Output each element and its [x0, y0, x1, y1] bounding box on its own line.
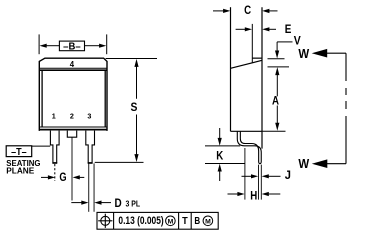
dimension H left extension line: [244, 148, 246, 200]
dimension D arrow right: [94, 201, 111, 205]
datum W upper arrow: [312, 49, 346, 58]
svg-text:K: K: [216, 151, 224, 163]
dimension D left extension line: [88, 163, 90, 211]
svg-text:S: S: [130, 102, 137, 114]
datum W lower arrow: [312, 159, 346, 168]
svg-text:W: W: [298, 47, 309, 61]
front view package body outline: [39, 58, 107, 131]
svg-text:2: 2: [70, 112, 74, 121]
side view body top sloped edge: [231, 60, 263, 68]
side view body bottom edge: [231, 130, 263, 132]
dimension S bottom reference line: [95, 161, 144, 163]
svg-text:0.13 (0.005): 0.13 (0.005): [118, 215, 164, 227]
svg-text:3: 3: [87, 112, 91, 121]
svg-text:–B–: –B–: [63, 41, 81, 52]
dimension S top extension line: [106, 57, 157, 59]
svg-text:J: J: [285, 170, 291, 182]
dimension C arrow right: [262, 9, 277, 13]
svg-text:T: T: [182, 216, 188, 227]
svg-text:M: M: [205, 218, 211, 225]
svg-text:1: 1: [52, 112, 56, 121]
datum B label box: [59, 41, 84, 52]
dimension E arrow left: [236, 27, 252, 31]
dimension K lower arrow: [218, 164, 222, 181]
seating plane text: [6, 158, 40, 175]
dimension K upper tick: [205, 145, 240, 147]
dimension H arrow right: [262, 192, 281, 196]
dimension S line upper with arrow: [134, 59, 138, 99]
dimension J right extension line: [260, 165, 262, 200]
dimension C arrow left: [213, 9, 230, 13]
dimension A bottom extension line: [262, 130, 286, 132]
front view body bottom lower line: [39, 129, 107, 131]
svg-text:H: H: [250, 190, 257, 202]
dimension V upper tick: [268, 58, 285, 60]
dimension A lower arrow: [275, 106, 279, 131]
svg-text:A: A: [272, 95, 279, 107]
feature control frame box: [97, 212, 218, 229]
lead 1 center extension line: [54, 164, 56, 181]
svg-text:W: W: [298, 157, 309, 171]
side view tab left edge with extension: [251, 24, 253, 63]
svg-text:M: M: [168, 218, 174, 225]
position tolerance symbol: [98, 214, 112, 228]
dimension K lower tick: [205, 163, 245, 165]
dimension G arrow right: [73, 175, 85, 179]
dimension D right extension line: [93, 163, 95, 211]
dimension V lower tick: [268, 66, 290, 68]
front view body inner right line: [104, 70, 106, 127]
side view body left edge with extension: [230, 7, 232, 131]
svg-text:C: C: [244, 3, 251, 17]
svg-text:V: V: [294, 35, 301, 47]
front view body inner left line: [41, 70, 43, 127]
svg-text:B: B: [194, 216, 200, 227]
tolerance M modifier circle: [166, 216, 176, 226]
dimension J left extension line: [258, 165, 260, 200]
datum W connector line dashed: [345, 53, 347, 164]
datum B M modifier circle: [203, 216, 213, 226]
dimension S line lower with arrow: [134, 115, 138, 163]
svg-text:3 PL: 3 PL: [126, 199, 141, 209]
dimension B right extension line: [106, 34, 108, 54]
dimension K upper arrow: [218, 128, 222, 146]
side view tab top edge: [252, 57, 262, 59]
lead 2 stub: [67, 131, 76, 138]
dimension B left extension line: [38, 34, 40, 54]
front view body bottom upper line: [40, 126, 107, 128]
lead 1: [50, 131, 59, 163]
svg-text:D: D: [115, 198, 122, 210]
dimension B arrow right: [85, 44, 107, 48]
svg-text:PLANE: PLANE: [6, 165, 34, 175]
front view tab bottom upper line: [40, 67, 107, 69]
side view body right edge with extension: [261, 7, 263, 148]
seating plane line: [32, 145, 51, 147]
dimension J arrow right: [262, 174, 281, 178]
front view tab bottom lower line: [40, 69, 107, 71]
lead 2 center extension line: [71, 137, 73, 200]
lead 3 tip bar: [88, 162, 93, 164]
dimension E arrow right: [262, 27, 276, 31]
dimension H arrow left: [228, 192, 245, 196]
svg-text:–T–: –T–: [11, 147, 27, 158]
dimension J arrow left: [242, 174, 259, 178]
datum T label box: [6, 146, 32, 158]
dimension B arrow left: [40, 44, 60, 48]
svg-text:4: 4: [70, 60, 75, 69]
dimension V leader with arrow: [275, 42, 293, 59]
svg-text:E: E: [285, 24, 292, 36]
side view formed lead: [237, 132, 261, 164]
svg-text:G: G: [59, 172, 66, 184]
lead 1 tip bar: [52, 162, 57, 164]
lead 3: [86, 131, 95, 163]
dimension D arrow left: [71, 201, 88, 205]
dimension A upper arrow: [275, 67, 279, 96]
dimension G arrow left: [41, 175, 55, 179]
